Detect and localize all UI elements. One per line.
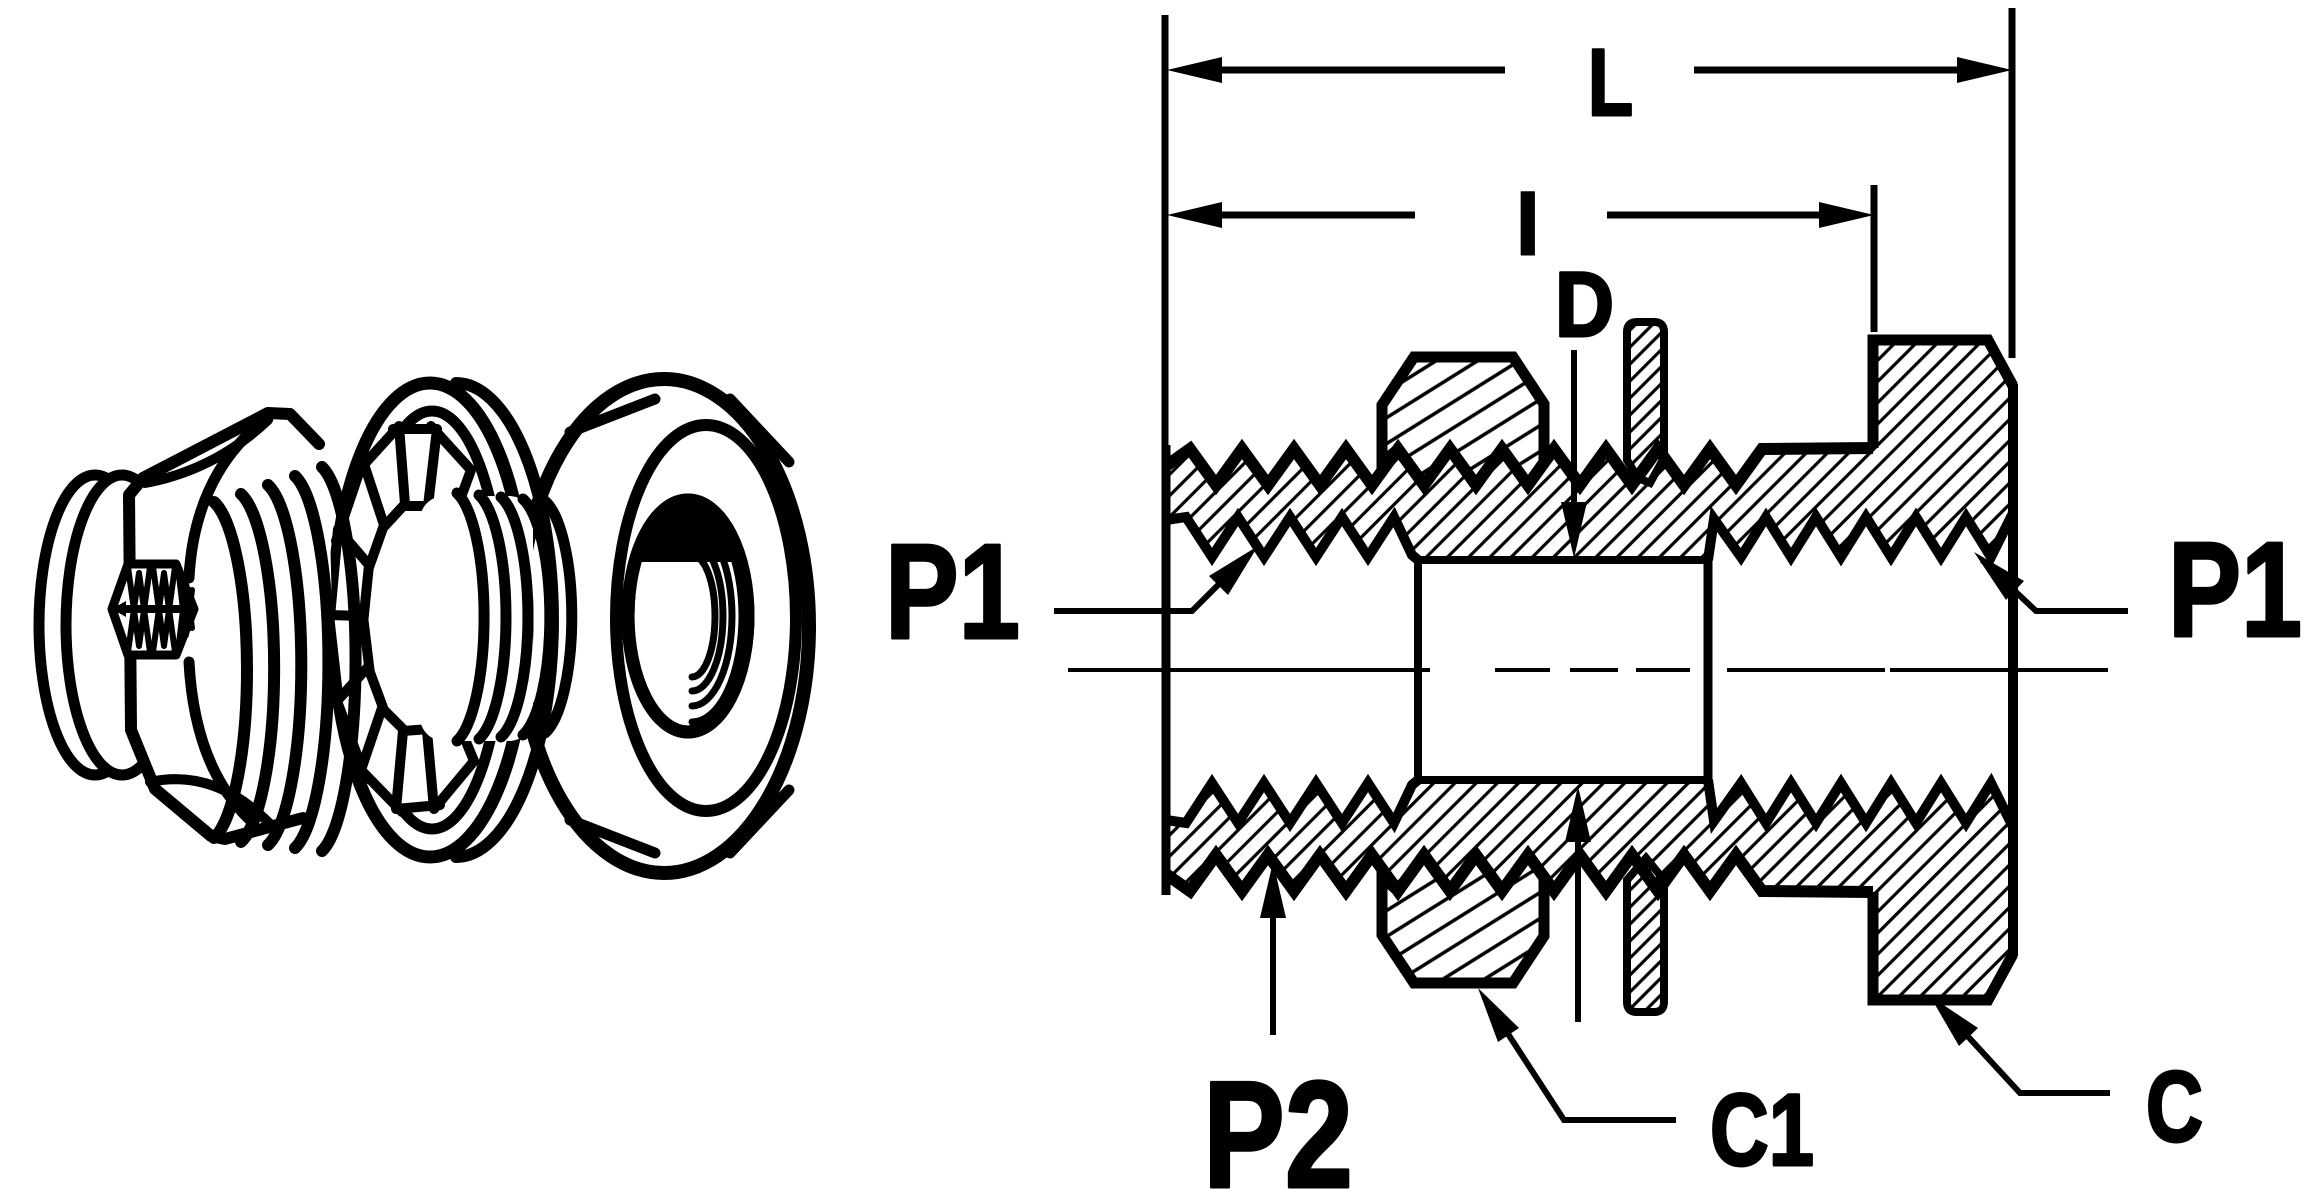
svg-text:P1: P1 (2168, 514, 2302, 665)
svg-text:P1: P1 (885, 516, 1020, 667)
svg-text:I: I (1515, 173, 1541, 275)
body lower half section hatch (1166, 780, 2013, 1000)
washer disc (456, 383, 553, 857)
locknut C1 upper section (1382, 357, 1544, 485)
bore bottom edge (1418, 776, 1708, 784)
dimension line L (1222, 67, 1957, 74)
lock washer lower section (1627, 858, 1664, 1012)
P2 leader (1270, 880, 1276, 1035)
locknut C1 lower section (1382, 855, 1544, 983)
right port end wall (1704, 556, 1713, 784)
bore left edge (1414, 560, 1422, 780)
arrowhead C1 (1478, 988, 1519, 1042)
hex nut left face washer arcs (39, 475, 151, 775)
arrowhead I left (1167, 202, 1222, 228)
arrowhead D upper (1561, 502, 1587, 558)
body upper half section hatch (1166, 340, 2013, 560)
centerline (1068, 668, 2108, 672)
star lock washer teeth (425, 426, 471, 530)
D arrow upper (1571, 350, 1577, 505)
male thread profile bottom (1166, 855, 1873, 892)
P1 right leader (1982, 560, 2128, 611)
arrowhead P1 right (1974, 552, 2024, 600)
body face ring (616, 425, 796, 811)
svg-text:C1: C1 (1710, 1073, 1814, 1187)
C1 leader (1486, 1000, 1676, 1120)
arrowhead D lower (1565, 786, 1591, 842)
flange outline top (1873, 340, 2013, 448)
male thread profile top (1166, 448, 1873, 485)
svg-text:P2: P2 (1203, 1050, 1353, 1198)
extension line left (1162, 15, 1169, 445)
extension line right I (1871, 185, 1878, 332)
dimension line I (1222, 212, 1820, 219)
hex nut body (129, 413, 333, 839)
svg-text:L: L (1588, 30, 1633, 136)
lock washer upper section (1627, 322, 1664, 483)
flange right face (2008, 384, 2018, 956)
flange outline bottom (1873, 892, 2013, 1000)
D arrow lower (1575, 838, 1581, 1022)
svg-text:D: D (1555, 254, 1614, 356)
arrowhead P1 left (1209, 546, 1258, 595)
nut bottom facet line (150, 779, 270, 824)
P1 left leader (1054, 557, 1246, 611)
arrowhead C (1930, 996, 1978, 1046)
arrowhead L right (1957, 57, 2012, 83)
internal thread left port top (1166, 517, 1418, 560)
bore top edge (1418, 556, 1708, 564)
arrowhead I right (1819, 202, 1874, 228)
internal thread left port bottom (1166, 780, 1418, 823)
threaded shank right section (420, 496, 533, 741)
nut top facet line (145, 420, 268, 483)
body hex flange (perspective, right piece) (519, 379, 809, 873)
body threaded bore (628, 500, 748, 732)
body left end face (1162, 445, 1171, 895)
extension line right L (2009, 8, 2016, 358)
nut face boundary (189, 418, 268, 820)
small hex thread symbol (112, 564, 194, 655)
svg-text:C: C (2146, 1051, 2203, 1163)
arrowhead L left (1167, 57, 1222, 83)
threaded shank left section (overlaps nut right side) (214, 502, 247, 838)
C leader (1938, 1004, 2110, 1093)
internal thread right port bottom (1708, 780, 2013, 823)
internal thread right port top (1708, 517, 2013, 560)
arrowhead P2 (1260, 862, 1286, 918)
